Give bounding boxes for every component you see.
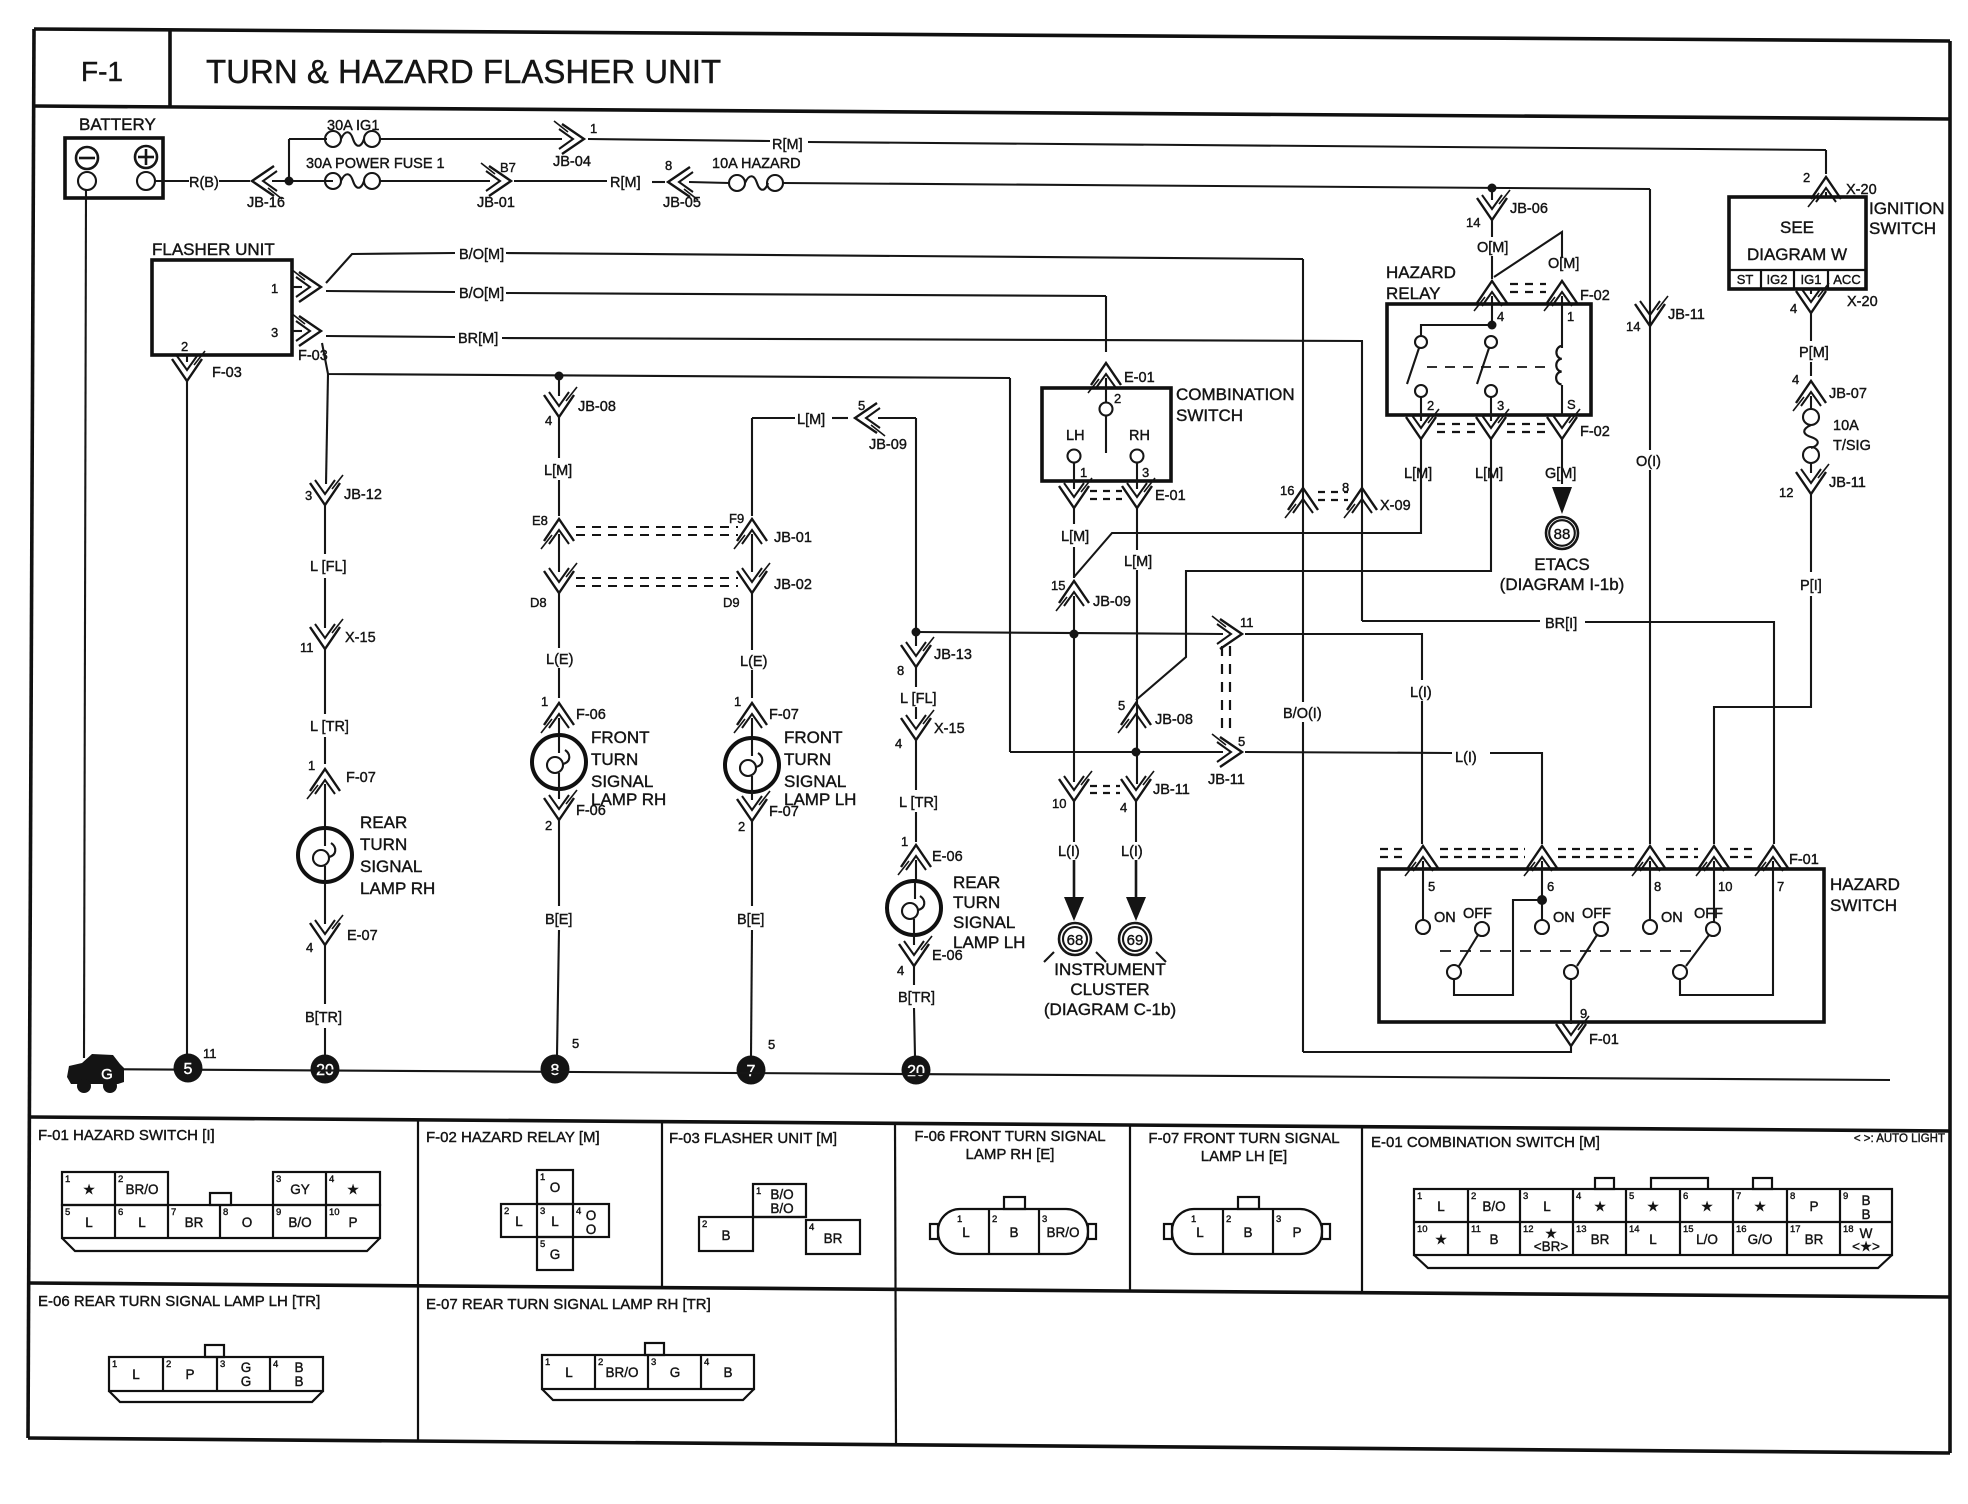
svg-text:1: 1 bbox=[756, 1186, 761, 1197]
table row separator bbox=[29, 1283, 1950, 1297]
svg-text:3: 3 bbox=[1042, 1214, 1047, 1225]
dashes between X-09 pair bbox=[1318, 491, 1348, 493]
connector E-06 pin1 bbox=[898, 845, 931, 875]
svg-text:11: 11 bbox=[1240, 615, 1254, 630]
svg-text:JB-11: JB-11 bbox=[1829, 475, 1866, 491]
wire B/O down at x=1303 bbox=[1302, 259, 1304, 702]
wire R[M] bbox=[514, 180, 607, 182]
svg-text:L: L bbox=[132, 1367, 140, 1382]
svg-text:BR: BR bbox=[185, 1215, 204, 1230]
wire down from corner x=916 bbox=[915, 418, 917, 632]
ground node 20 bbox=[902, 1056, 931, 1085]
svg-text:1: 1 bbox=[65, 1174, 70, 1185]
svg-text:IGNITION: IGNITION bbox=[1869, 199, 1945, 218]
svg-text:6: 6 bbox=[1683, 1191, 1688, 1202]
pin1 wire bbox=[292, 286, 302, 288]
svg-text:SIGNAL: SIGNAL bbox=[591, 772, 653, 791]
svg-text:R[M]: R[M] bbox=[772, 137, 803, 153]
svg-text:17: 17 bbox=[1790, 1224, 1801, 1235]
relay contact circles bbox=[1415, 336, 1427, 348]
outer frame top bbox=[34, 29, 1950, 41]
wire L feed horizontal (y=635) bbox=[916, 632, 1223, 634]
svg-text:L(I): L(I) bbox=[1121, 844, 1143, 860]
connector JB-07 pin4 bbox=[1793, 381, 1826, 411]
dashed pair E8 to F9 bbox=[576, 526, 738, 528]
dashes between F-01 connectors bbox=[1380, 848, 1406, 850]
instrument cluster arrow right bbox=[1135, 800, 1137, 842]
svg-text:RH: RH bbox=[1129, 428, 1150, 444]
svg-text:TURN & HAZARD FLASHER UNIT: TURN & HAZARD FLASHER UNIT bbox=[206, 53, 721, 90]
fuse 10A T/SIG (vertical) bbox=[1810, 396, 1812, 409]
svg-text:3: 3 bbox=[271, 325, 278, 340]
svg-text:2: 2 bbox=[1803, 170, 1810, 185]
svg-text:4: 4 bbox=[1497, 309, 1504, 324]
svg-text:B/O: B/O bbox=[288, 1215, 311, 1230]
svg-text:G: G bbox=[101, 1066, 113, 1083]
svg-text:E-01: E-01 bbox=[1124, 370, 1155, 386]
RH contact bbox=[1131, 450, 1144, 463]
connector JB-01 E8 bbox=[541, 519, 574, 549]
connector F-01 pin9 below box bbox=[1556, 1016, 1589, 1046]
svg-text:BR: BR bbox=[824, 1231, 843, 1246]
svg-text:5: 5 bbox=[1238, 734, 1245, 749]
wire junction up to IG1 fuse row bbox=[288, 139, 290, 181]
wire split B/O[M] upper bbox=[326, 253, 455, 283]
svg-text:69: 69 bbox=[1127, 932, 1144, 949]
svg-text:F9: F9 bbox=[729, 511, 744, 526]
svg-text:20: 20 bbox=[907, 1063, 925, 1080]
svg-text:E-01: E-01 bbox=[1155, 488, 1186, 504]
svg-text:G: G bbox=[241, 1374, 252, 1389]
svg-text:<BR>: <BR> bbox=[1534, 1239, 1569, 1254]
svg-text:(DIAGRAM I-1b): (DIAGRAM I-1b) bbox=[1500, 575, 1625, 594]
OFF contacts bbox=[1475, 922, 1489, 936]
connector F-02 pin3 (below) bbox=[1476, 409, 1509, 439]
svg-text:B/O: B/O bbox=[1482, 1199, 1505, 1214]
wire relay pin2 to combination switch LH column bbox=[1074, 438, 1421, 577]
wire R[M] to ignition bbox=[588, 139, 770, 141]
svg-text:30A POWER FUSE 1: 30A POWER FUSE 1 bbox=[306, 156, 445, 172]
LH wire to junction bbox=[1073, 596, 1075, 782]
svg-text:F-07: F-07 bbox=[769, 707, 799, 723]
svg-text:COMBINATION: COMBINATION bbox=[1176, 385, 1295, 404]
svg-text:BR/O: BR/O bbox=[125, 1182, 158, 1197]
svg-text:5: 5 bbox=[858, 398, 865, 413]
pin5 wire to ON contact bbox=[1422, 861, 1424, 920]
svg-text:4: 4 bbox=[897, 963, 904, 978]
pin 2 contact bbox=[1105, 388, 1107, 403]
svg-text:P[M]: P[M] bbox=[1799, 345, 1829, 361]
svg-text:1: 1 bbox=[545, 1357, 550, 1368]
dashes between lower F-02 connectors bbox=[1437, 423, 1475, 425]
svg-text:D9: D9 bbox=[723, 595, 740, 610]
pin8 wire to ON bbox=[1649, 861, 1651, 920]
svg-text:11: 11 bbox=[203, 1046, 217, 1061]
battery plus terminal bbox=[135, 146, 157, 168]
connector F-06 pin2 bbox=[558, 789, 560, 799]
svg-text:B/O: B/O bbox=[770, 1187, 793, 1202]
svg-text:JB-05: JB-05 bbox=[663, 195, 701, 211]
svg-text:L: L bbox=[1196, 1225, 1204, 1240]
connector JB-01 (B7) bbox=[481, 163, 511, 196]
connector JB-13 pin8 bbox=[915, 632, 917, 646]
svg-text:JB-13: JB-13 bbox=[934, 647, 972, 663]
wire between connectors bbox=[558, 534, 560, 572]
svg-text:F-1: F-1 bbox=[81, 56, 123, 87]
svg-text:REAR: REAR bbox=[953, 873, 1000, 892]
svg-text:ON: ON bbox=[1553, 910, 1575, 926]
svg-text:B/O: B/O bbox=[770, 1201, 793, 1216]
rear turn signal lamp RH bulb bbox=[298, 828, 352, 882]
svg-text:D8: D8 bbox=[530, 595, 547, 610]
svg-text:4: 4 bbox=[1120, 800, 1127, 815]
connector JB-02 D8 bbox=[544, 563, 577, 593]
svg-text:1: 1 bbox=[1191, 1214, 1196, 1225]
svg-text:JB-11: JB-11 bbox=[1208, 772, 1245, 788]
svg-text:4: 4 bbox=[1576, 1191, 1581, 1202]
svg-text:LAMP LH [E]: LAMP LH [E] bbox=[1201, 1148, 1287, 1165]
hazard switch box bbox=[1379, 869, 1824, 1022]
svg-text:B[E]: B[E] bbox=[737, 912, 764, 928]
table top line bbox=[30, 1117, 1950, 1131]
junction dot bbox=[912, 628, 921, 637]
svg-text:L: L bbox=[565, 1365, 573, 1380]
ETACS arrow bbox=[1552, 487, 1572, 514]
svg-text:8: 8 bbox=[223, 1207, 228, 1218]
svg-text:B: B bbox=[723, 1365, 732, 1380]
svg-text:X-15: X-15 bbox=[934, 721, 965, 737]
wire P[I] down and over to hazard switch pin 10 bbox=[1810, 493, 1812, 572]
section1 lower wire to pin6 bbox=[1454, 900, 1542, 995]
svg-text:SWITCH: SWITCH bbox=[1869, 219, 1936, 238]
svg-text:OFF: OFF bbox=[1463, 906, 1492, 922]
connector JB-08 pin11 (right-pointing) bbox=[1212, 616, 1242, 649]
svg-text:LAMP RH: LAMP RH bbox=[360, 879, 435, 898]
wire down from feed line bbox=[326, 374, 328, 484]
svg-text:X-15: X-15 bbox=[345, 630, 376, 646]
connector F-06 pin1 bbox=[541, 703, 574, 733]
dashed actuator line bbox=[1440, 950, 1700, 952]
wire L[TR] bbox=[324, 648, 326, 714]
svg-text:2: 2 bbox=[1427, 398, 1434, 413]
svg-text:B7: B7 bbox=[500, 160, 516, 175]
svg-text:O[M]: O[M] bbox=[1548, 256, 1579, 272]
svg-text:8: 8 bbox=[551, 1062, 560, 1079]
svg-text:HAZARD: HAZARD bbox=[1830, 875, 1900, 894]
svg-text:G: G bbox=[241, 1360, 252, 1375]
svg-text:L[M]: L[M] bbox=[1061, 529, 1089, 545]
svg-text:12: 12 bbox=[1523, 1224, 1534, 1235]
svg-text:F-02: F-02 bbox=[1580, 424, 1610, 440]
svg-text:15: 15 bbox=[1051, 578, 1065, 593]
svg-text:L(I): L(I) bbox=[1455, 750, 1477, 766]
svg-text:TURN: TURN bbox=[784, 750, 831, 769]
svg-text:8: 8 bbox=[1654, 879, 1661, 894]
connector X-20 pin2 bbox=[1808, 177, 1841, 207]
dashes between E-01 pair bbox=[1090, 490, 1122, 492]
svg-text:ST: ST bbox=[1737, 272, 1754, 287]
svg-text:JB-07: JB-07 bbox=[1829, 386, 1867, 402]
junction dot JB-06 bbox=[1488, 184, 1497, 193]
svg-text:B: B bbox=[1009, 1225, 1018, 1240]
svg-text:5: 5 bbox=[184, 1061, 193, 1078]
svg-text:JB-08: JB-08 bbox=[578, 399, 616, 415]
svg-text:E-07 REAR TURN SIGNAL LAMP RH: E-07 REAR TURN SIGNAL LAMP RH [TR] bbox=[426, 1296, 711, 1313]
svg-text:G[M]: G[M] bbox=[1545, 466, 1576, 482]
svg-text:R(B): R(B) bbox=[189, 175, 219, 191]
svg-text:8: 8 bbox=[1342, 480, 1349, 495]
svg-text:2: 2 bbox=[118, 1174, 123, 1185]
svg-text:4: 4 bbox=[1790, 301, 1797, 316]
svg-text:16: 16 bbox=[1736, 1224, 1747, 1235]
svg-text:B: B bbox=[1861, 1207, 1870, 1222]
connector JB-05 pin 8 bbox=[668, 167, 698, 200]
svg-text:★: ★ bbox=[1754, 1199, 1766, 1214]
battery minus terminal bbox=[76, 147, 98, 169]
wire L[FL] bbox=[324, 504, 326, 554]
RH wire L[M] bbox=[1136, 507, 1138, 550]
svg-text:<★>: <★> bbox=[1852, 1239, 1880, 1254]
ignition switch cell row bbox=[1729, 269, 1866, 271]
svg-text:TURN: TURN bbox=[591, 750, 638, 769]
svg-text:R[M]: R[M] bbox=[610, 175, 641, 191]
svg-text:F-06: F-06 bbox=[576, 803, 606, 819]
svg-text:6: 6 bbox=[118, 1207, 123, 1218]
wire down from corner x=752 bbox=[751, 418, 753, 516]
relay internal wire to left contact bbox=[1421, 325, 1492, 336]
section2 lower wire to pin9 bbox=[1570, 979, 1572, 1024]
svg-text:3: 3 bbox=[305, 488, 312, 503]
wire battery R(B) bbox=[155, 180, 189, 182]
svg-text:ACC: ACC bbox=[1833, 272, 1860, 287]
junction dot on RH line bbox=[1132, 748, 1141, 757]
relay coil bbox=[1556, 346, 1562, 384]
svg-text:B/O[M]: B/O[M] bbox=[459, 247, 504, 263]
svg-text:L [TR]: L [TR] bbox=[310, 719, 349, 735]
connector F-02 pin1 bbox=[1544, 281, 1577, 311]
svg-text:1: 1 bbox=[540, 1172, 545, 1183]
connector JB-04 bbox=[554, 121, 584, 154]
svg-text:IG1: IG1 bbox=[1801, 272, 1822, 287]
svg-text:L: L bbox=[85, 1215, 93, 1230]
pin2 wire down bbox=[186, 355, 188, 362]
svg-text:5: 5 bbox=[572, 1036, 579, 1051]
svg-text:E8: E8 bbox=[532, 513, 548, 528]
lower contacts bbox=[1447, 965, 1461, 979]
svg-text:68: 68 bbox=[1067, 932, 1084, 949]
svg-text:F-03: F-03 bbox=[212, 365, 242, 381]
svg-text:4: 4 bbox=[1792, 372, 1799, 387]
svg-text:15: 15 bbox=[1683, 1224, 1694, 1235]
svg-text:JB-02: JB-02 bbox=[774, 577, 812, 593]
svg-text:13: 13 bbox=[1576, 1224, 1587, 1235]
connector X-15 pin11 bbox=[310, 619, 343, 649]
section3 lower wire to pin7 bbox=[1680, 861, 1773, 995]
svg-text:O(I): O(I) bbox=[1636, 454, 1661, 470]
svg-text:SIGNAL: SIGNAL bbox=[784, 772, 846, 791]
svg-text:12: 12 bbox=[1779, 485, 1793, 500]
svg-text:L(E): L(E) bbox=[546, 652, 573, 668]
svg-text:L(I): L(I) bbox=[1410, 685, 1432, 701]
svg-text:L [TR]: L [TR] bbox=[899, 795, 938, 811]
svg-text:5: 5 bbox=[768, 1037, 775, 1052]
svg-text:O: O bbox=[586, 1222, 597, 1237]
svg-text:FRONT: FRONT bbox=[784, 728, 843, 747]
svg-text:9: 9 bbox=[1843, 1191, 1848, 1202]
svg-text:F-03 FLASHER UNIT [M]: F-03 FLASHER UNIT [M] bbox=[669, 1130, 837, 1147]
svg-text:BR[M]: BR[M] bbox=[458, 331, 498, 347]
svg-text:4: 4 bbox=[306, 940, 313, 955]
svg-text:★: ★ bbox=[1701, 1199, 1713, 1214]
wire B[E] bbox=[751, 820, 753, 906]
wires into relay bbox=[1491, 296, 1493, 326]
wire B/O[M] down to E-01 bbox=[1105, 296, 1107, 352]
connector JB-11 pin12 bbox=[1810, 463, 1812, 473]
svg-text:1: 1 bbox=[541, 694, 548, 709]
wire G[M] to ETACS arrow bbox=[1561, 438, 1563, 484]
svg-text:BR: BR bbox=[1591, 1232, 1610, 1247]
title bar bottom line bbox=[34, 106, 1950, 119]
svg-text:LAMP RH [E]: LAMP RH [E] bbox=[966, 1146, 1055, 1163]
wire B/O[M] upper to X-09 bbox=[506, 253, 1303, 259]
svg-text:E-06 REAR TURN SIGNAL LAMP LH: E-06 REAR TURN SIGNAL LAMP LH [TR] bbox=[38, 1293, 320, 1310]
svg-text:★: ★ bbox=[347, 1182, 359, 1197]
svg-text:2: 2 bbox=[1226, 1214, 1231, 1225]
svg-text:L[M]: L[M] bbox=[797, 412, 825, 428]
svg-text:8: 8 bbox=[897, 663, 904, 678]
wire B[E] bbox=[558, 819, 560, 906]
svg-text:DIAGRAM W: DIAGRAM W bbox=[1747, 245, 1847, 264]
connector JB-11 pin4 (right) bbox=[1121, 771, 1154, 801]
divider F-02/F-03 bbox=[661, 1122, 663, 1288]
relay pin wires below bbox=[1420, 397, 1422, 421]
svg-text:OFF: OFF bbox=[1694, 906, 1723, 922]
ground node 7 bbox=[737, 1056, 766, 1085]
rear turn signal lamp LH bulb bbox=[887, 881, 941, 935]
svg-text:INSTRUMENT: INSTRUMENT bbox=[1054, 960, 1165, 979]
svg-text:JB-09: JB-09 bbox=[869, 437, 907, 453]
svg-text:GY: GY bbox=[290, 1182, 310, 1197]
svg-text:B: B bbox=[294, 1360, 303, 1375]
battery lower right post bbox=[137, 172, 155, 190]
wire to bulb bbox=[558, 718, 560, 736]
LH contact bbox=[1068, 450, 1081, 463]
svg-text:5: 5 bbox=[540, 1239, 545, 1250]
svg-text:ETACS: ETACS bbox=[1534, 555, 1589, 574]
wire B[TR] bbox=[913, 965, 915, 985]
wire L(E) bbox=[558, 592, 560, 648]
diagonal feed to relay pin1 bbox=[1494, 232, 1562, 277]
connector X-09 pin16 bbox=[1285, 488, 1318, 518]
connector F-02 pinS (below) bbox=[1547, 409, 1580, 439]
svg-text:JB-08: JB-08 bbox=[1155, 712, 1193, 728]
svg-text:ON: ON bbox=[1434, 910, 1456, 926]
connector JB-08 pin4 bbox=[558, 376, 560, 396]
wire O[M] bbox=[1491, 219, 1493, 237]
svg-text:1: 1 bbox=[734, 694, 741, 709]
svg-text:7: 7 bbox=[171, 1207, 176, 1218]
svg-text:16: 16 bbox=[1280, 483, 1294, 498]
wire L[M] link from JB-09 to column bbox=[752, 417, 795, 419]
wire bbox=[751, 534, 753, 572]
svg-text:10A HAZARD: 10A HAZARD bbox=[712, 156, 801, 172]
wire pin2 to ground bus bbox=[186, 380, 188, 1056]
svg-text:8: 8 bbox=[1790, 1191, 1795, 1202]
svg-text:L [FL]: L [FL] bbox=[900, 691, 937, 707]
svg-text:L(E): L(E) bbox=[740, 654, 767, 670]
svg-text:18: 18 bbox=[1843, 1224, 1854, 1235]
svg-text:14: 14 bbox=[1466, 215, 1480, 230]
svg-text:CLUSTER: CLUSTER bbox=[1070, 980, 1149, 999]
svg-text:L/O: L/O bbox=[1696, 1232, 1718, 1247]
svg-text:F-06: F-06 bbox=[576, 707, 606, 723]
svg-text:F-07: F-07 bbox=[769, 804, 799, 820]
wire BR down at x=1362 bbox=[1361, 341, 1363, 621]
svg-text:E-01 COMBINATION SWITCH [M]: E-01 COMBINATION SWITCH [M] bbox=[1371, 1134, 1600, 1151]
svg-text:L[M]: L[M] bbox=[544, 463, 572, 479]
combination switch box bbox=[1042, 388, 1171, 481]
svg-text:1: 1 bbox=[1567, 309, 1574, 324]
svg-text:1: 1 bbox=[901, 834, 908, 849]
wire P[M] bbox=[1810, 312, 1812, 341]
svg-text:2: 2 bbox=[1114, 391, 1121, 406]
svg-text:F-06 FRONT TURN SIGNAL: F-06 FRONT TURN SIGNAL bbox=[914, 1128, 1105, 1145]
cluster bracket ticks bbox=[1044, 952, 1054, 962]
svg-text:L: L bbox=[138, 1215, 146, 1230]
wire relay pin3 to JB-08 column bbox=[1136, 438, 1491, 700]
svg-text:10A: 10A bbox=[1833, 418, 1859, 434]
wire battery to ground (left) bbox=[84, 190, 86, 1058]
svg-text:1: 1 bbox=[1417, 1191, 1422, 1202]
connector E-01 pin3 (below) bbox=[1122, 478, 1155, 508]
divider F-01/F-02 bbox=[417, 1120, 419, 1441]
svg-text:5: 5 bbox=[1629, 1191, 1634, 1202]
svg-text:11: 11 bbox=[300, 640, 314, 655]
svg-text:BR[I]: BR[I] bbox=[1545, 616, 1577, 632]
svg-text:OFF: OFF bbox=[1582, 906, 1611, 922]
svg-text:5: 5 bbox=[1428, 879, 1435, 894]
svg-text:2: 2 bbox=[598, 1357, 603, 1368]
svg-text:L[M]: L[M] bbox=[1124, 554, 1152, 570]
wire L[TR] bbox=[915, 739, 917, 790]
svg-text:B: B bbox=[721, 1228, 730, 1243]
wire to bulb bbox=[324, 784, 326, 829]
svg-text:IG2: IG2 bbox=[1767, 272, 1788, 287]
connector JB-11 pin5 (right-pointing) bbox=[1212, 734, 1242, 767]
svg-text:SIGNAL: SIGNAL bbox=[953, 913, 1015, 932]
svg-text:5: 5 bbox=[65, 1207, 70, 1218]
svg-text:9: 9 bbox=[276, 1207, 281, 1218]
wire B[TR] bbox=[324, 944, 326, 1004]
svg-text:B[E]: B[E] bbox=[545, 912, 572, 928]
svg-text:JB-11: JB-11 bbox=[1153, 782, 1190, 798]
svg-text:X-20: X-20 bbox=[1847, 294, 1878, 310]
dashes between JB-11 pair bbox=[1090, 785, 1120, 787]
svg-text:10: 10 bbox=[1417, 1224, 1428, 1235]
wire fuse IG1 to JB-04 bbox=[380, 138, 562, 140]
svg-text:JB-11: JB-11 bbox=[1668, 307, 1705, 323]
title divider bbox=[168, 30, 172, 107]
battery box bbox=[65, 138, 163, 198]
svg-text:B: B bbox=[1243, 1225, 1252, 1240]
outer frame bottom bbox=[28, 1438, 1950, 1453]
svg-text:BR/O: BR/O bbox=[605, 1365, 638, 1380]
connector JB-09 pin15 bbox=[1056, 581, 1089, 611]
connector JB-02 D9 bbox=[737, 563, 770, 593]
junction dot pin4 bbox=[1488, 321, 1497, 330]
svg-text:L: L bbox=[1437, 1199, 1445, 1214]
svg-text:P: P bbox=[1292, 1225, 1301, 1240]
